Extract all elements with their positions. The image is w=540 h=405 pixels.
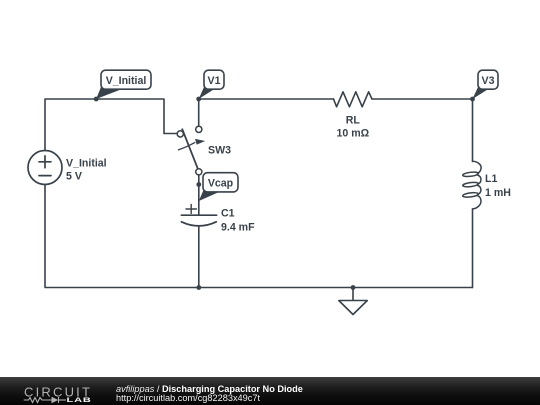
switch SW3 common contact pin 3 [196, 169, 202, 175]
wire capacitor to bottom wire [198, 227, 200, 288]
switch SW3 arrow head [195, 139, 205, 145]
wire inductor to bottom wire [472, 209, 474, 288]
svg-text:C1: C1 [221, 208, 235, 220]
wire V1 top run to resistor [199, 98, 334, 100]
wire switch lower contact to capacitor [198, 175, 200, 215]
switch SW3 upper contact pin 2 [196, 126, 202, 132]
capacitor C1 curved bottom plate [181, 222, 216, 226]
node flag V3 [473, 70, 499, 99]
wire left-top: source to top-left corner [45, 99, 177, 151]
svg-text:RL: RL [346, 115, 361, 127]
svg-text:V3: V3 [482, 75, 495, 87]
svg-text:V_Initial: V_Initial [106, 75, 147, 87]
node flag Vcap [199, 173, 238, 201]
node V3 junction [470, 97, 475, 102]
voltage source V_Initial body circle [28, 151, 62, 185]
node V1 junction [196, 97, 201, 102]
node Vcap junction [196, 182, 201, 187]
capacitor C1 [181, 205, 216, 226]
node flag V_Initial [96, 70, 151, 99]
svg-text:9.4 mF: 9.4 mF [221, 222, 255, 234]
junction ground-bottom wire [351, 285, 356, 290]
svg-text:10 mΩ: 10 mΩ [336, 128, 369, 140]
svg-text:V1: V1 [208, 75, 221, 87]
node V_Initial flag junction [94, 97, 99, 102]
CircuitLab logo [0, 377, 100, 405]
svg-text:V_Initial: V_Initial [66, 158, 107, 170]
svg-text:L1: L1 [485, 173, 497, 185]
junction capacitor-bottom wire [196, 285, 201, 290]
switch SW3 blade [182, 129, 198, 169]
svg-text:5 V: 5 V [66, 171, 82, 183]
svg-text:1 mH: 1 mH [485, 187, 511, 199]
svg-text:Vcap: Vcap [208, 178, 234, 190]
wire resistor to V3 corner [372, 99, 473, 162]
svg-text:LAB: LAB [67, 397, 92, 404]
capacitor C1 top plate [181, 214, 216, 216]
ground stem [352, 288, 354, 301]
voltage source V_Initial [28, 151, 62, 185]
footer bar [0, 377, 540, 405]
ground [339, 301, 368, 315]
capacitor C1 polarity plus mark [186, 205, 196, 214]
voltage source plus terminal mark [39, 156, 51, 168]
wire left-bottom: source to bottom wire [45, 185, 473, 288]
node flag V1 [199, 70, 224, 99]
resistor RL [334, 92, 373, 107]
wire V1 to switch upper contact [198, 99, 200, 126]
voltage source minus terminal mark [39, 175, 51, 177]
svg-text:SW3: SW3 [208, 145, 231, 157]
switch SW3 left contact pin 1 [177, 131, 183, 137]
switch SW3 [177, 126, 205, 175]
inductor L1 [463, 161, 482, 209]
switch SW3 actuation arrow arc [178, 142, 195, 150]
